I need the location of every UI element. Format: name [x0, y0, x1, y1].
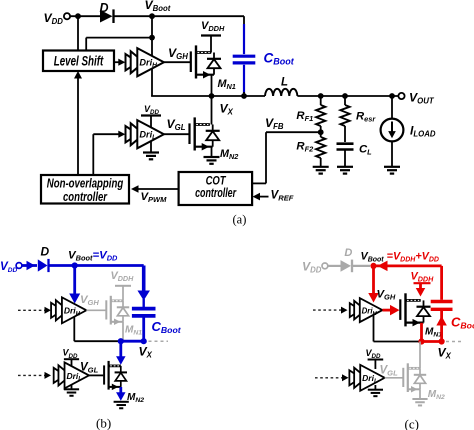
- b label CBoot: [152, 319, 182, 335]
- transistor MN2: [190, 117, 220, 150]
- c dashes VX right: [446, 341, 464, 343]
- c wire VDDH to MN1 drain red: [416, 283, 426, 296]
- svg-text:VBoot: VBoot: [145, 0, 171, 13]
- svg-text:MN2: MN2: [428, 389, 445, 401]
- terminal VOUT: [398, 93, 404, 99]
- c ground DriL: [368, 390, 383, 396]
- c label D gray: [344, 247, 352, 259]
- wire VDD down to Level Shift: [77, 16, 79, 50]
- svg-text:VGL: VGL: [380, 365, 399, 378]
- svg-text:(b): (b): [96, 416, 111, 430]
- label MN2: [220, 148, 238, 161]
- svg-text:L: L: [281, 77, 288, 89]
- junction VBoot: [149, 13, 155, 19]
- svg-text:VGH: VGH: [377, 288, 396, 301]
- junction VBoot supply tap: [149, 35, 155, 41]
- capacitor CL: [337, 144, 354, 150]
- resistor RF2: [316, 132, 325, 167]
- junction MN1 VX: [209, 93, 215, 99]
- svg-text:VFB: VFB: [265, 116, 284, 131]
- svg-text:VX: VX: [438, 346, 452, 361]
- wire nonoverlap to DriL input: [93, 131, 125, 175]
- svg-text:Level Shift: Level Shift: [54, 53, 104, 68]
- b junction VX right: [141, 338, 147, 344]
- c label VX: [438, 346, 452, 361]
- svg-text:VGL: VGL: [80, 362, 99, 375]
- svg-text:VDD: VDD: [366, 348, 381, 360]
- svg-text:MN2: MN2: [220, 148, 238, 161]
- b arrow on VDD wire: [27, 261, 36, 271]
- svg-text:VDD: VDD: [0, 260, 17, 274]
- b label VDD: [0, 260, 17, 274]
- ground ILOAD: [384, 167, 400, 174]
- b wire MN1 source down gray: [122, 322, 124, 341]
- b diode D: [38, 259, 49, 272]
- label RF2: [296, 141, 314, 154]
- buffer DriL: [126, 120, 164, 148]
- svg-text:VREF: VREF: [271, 189, 294, 203]
- b arrow into CBoot: [137, 291, 150, 301]
- svg-text:VPWM: VPWM: [141, 191, 168, 204]
- label CBoot: [264, 51, 295, 67]
- wire DriL to ground: [150, 140, 152, 153]
- wire CBoot to VX: [243, 92, 245, 96]
- c label (c): [405, 417, 419, 430]
- b label MN1 gray: [125, 325, 142, 337]
- svg-text:VDDH: VDDH: [411, 271, 435, 284]
- c wire VX to MN2 drain gray: [419, 342, 421, 369]
- b wire CBoot to VX: [142, 318, 145, 342]
- c ground MN2 gray: [412, 399, 427, 405]
- b label MN2: [127, 392, 144, 404]
- wire CBoot top blue: [243, 24, 245, 54]
- c diode D gray: [341, 260, 353, 273]
- c transistor MN1: [400, 293, 430, 326]
- svg-text:VDD: VDD: [302, 260, 322, 275]
- c label MN2 gray: [428, 389, 445, 401]
- wire CL to ground: [344, 151, 346, 167]
- c wire DriH out to MN1 red: [382, 305, 399, 316]
- svg-text:controller: controller: [195, 185, 237, 200]
- svg-text:MN1: MN1: [125, 325, 142, 337]
- wire VGH DriH to MN1 gate: [164, 61, 190, 63]
- b input dashes DriL: [18, 372, 51, 379]
- b supply VDDH gray bar: [115, 285, 131, 287]
- c label MN1: [425, 327, 442, 339]
- b buffer DriL: [54, 362, 89, 388]
- b dashes VX right: [149, 340, 169, 342]
- b supply VDD DriL label: [63, 348, 78, 360]
- b junction VBoot: [72, 262, 78, 268]
- wire MN2 source to ground: [211, 147, 213, 157]
- svg-text:VGL: VGL: [167, 117, 186, 132]
- c supply VDDH red bar: [414, 282, 431, 284]
- c wire CBoot branch red: [440, 266, 443, 300]
- b wire VX segment blue: [121, 340, 144, 343]
- supply VDDH bar: [201, 34, 221, 36]
- c arrow into VBoot: [378, 261, 388, 272]
- svg-text:controller: controller: [63, 189, 108, 204]
- b wire VGL to MN2: [89, 374, 103, 376]
- b wire MN2 source to gnd blue: [116, 387, 126, 401]
- c supply VDD DriL bar: [368, 359, 384, 361]
- supply VDD DriL label: [144, 104, 159, 116]
- source ILOAD: [381, 119, 404, 142]
- buffer DriH: [126, 48, 164, 76]
- label RF1: [296, 110, 313, 123]
- box Level Shift: [43, 51, 114, 72]
- svg-text:ILOAD: ILOAD: [410, 124, 436, 139]
- b ground MN2: [114, 402, 129, 408]
- b label VGH gray: [80, 294, 99, 307]
- b wire VDDH to MN1 drain gray: [122, 286, 124, 301]
- svg-text:CBoot: CBoot: [264, 51, 295, 67]
- label CL: [359, 144, 372, 157]
- box non-overlapping controller: [41, 175, 129, 204]
- b supply VDD DriL bar: [64, 358, 79, 360]
- c wire DriH return to VX: [374, 314, 422, 342]
- junction ILOAD top: [389, 93, 395, 99]
- b input dashes DriH: [18, 307, 51, 314]
- wire diode to VBoot rail: [115, 15, 245, 17]
- svg-text:CBoot: CBoot: [152, 319, 182, 335]
- resistor RF1: [316, 96, 325, 132]
- wire ILOAD bottom: [391, 141, 393, 166]
- label VREF: [271, 189, 294, 203]
- wire VX rail: [151, 95, 265, 97]
- svg-text:(a): (a): [233, 213, 247, 227]
- wire Level Shift to DriH input: [114, 59, 125, 66]
- c terminal VDD gray: [322, 263, 328, 269]
- wire VFB: [251, 132, 320, 183]
- svg-text:MN2: MN2: [127, 392, 144, 404]
- c wire diode to VBoot gray: [353, 265, 370, 267]
- c wire VDD to diode gray: [328, 265, 341, 267]
- junction CBoot VX: [241, 93, 247, 99]
- capacitor CBoot: [233, 56, 256, 63]
- junction VDD branch: [75, 13, 81, 19]
- svg-text:(c): (c): [405, 417, 419, 430]
- c wire VBoot down to DriH red: [368, 266, 379, 303]
- junction Resr top: [342, 93, 348, 99]
- label VFB: [265, 116, 284, 131]
- svg-text:MN1: MN1: [218, 78, 236, 91]
- c label VBoot eq: [361, 251, 439, 264]
- svg-text:VBoot=VDD: VBoot=VDD: [68, 249, 118, 262]
- junction RF1 top: [318, 93, 324, 99]
- b buffer DriH: [51, 297, 86, 323]
- svg-text:D: D: [41, 244, 50, 258]
- wire ILOAD top: [391, 96, 393, 119]
- wire VDDH to MN1 drain: [210, 36, 212, 53]
- wire VBoot to level-shift supply: [86, 16, 152, 50]
- b junction VX left: [118, 338, 124, 344]
- supply VDD DriL bar: [141, 114, 161, 116]
- c arrow up into CBoot: [436, 316, 447, 326]
- wire VGL DriL to MN2 gate: [164, 133, 189, 135]
- wire DriH supply VBoot to VX: [151, 38, 153, 96]
- b arrow into DriH: [69, 294, 80, 304]
- svg-text:VDD: VDD: [44, 11, 64, 26]
- svg-text:Resr: Resr: [356, 111, 376, 124]
- b supply VDDH gray label: [111, 270, 135, 283]
- svg-text:VDD: VDD: [144, 104, 159, 116]
- label D: [100, 1, 109, 15]
- svg-text:VGH: VGH: [80, 294, 99, 307]
- label VOUT: [409, 91, 435, 106]
- b transistor MN1 gray: [106, 296, 129, 325]
- svg-text:D: D: [100, 1, 109, 15]
- c wire MN2 source gnd gray: [419, 389, 421, 398]
- svg-text:VDDH: VDDH: [201, 20, 225, 33]
- c junction VBoot red: [370, 263, 376, 269]
- b wire VDD to DriL: [71, 359, 73, 368]
- b wire DriL ground: [71, 383, 73, 389]
- label VX: [220, 102, 234, 117]
- svg-text:VBoot =VDDH+VDD: VBoot =VDDH+VDD: [361, 251, 439, 264]
- svg-text:VX: VX: [220, 102, 234, 117]
- svg-text:VDD: VDD: [63, 348, 78, 360]
- c junction VX left red: [418, 338, 424, 344]
- b wire VDD to diode: [22, 264, 37, 267]
- b wire CBoot branch blue: [142, 266, 146, 293]
- svg-text:VDDH: VDDH: [111, 270, 135, 283]
- c input dashes DriL: [315, 374, 349, 381]
- inductor L: [265, 89, 297, 96]
- b wire VBoot down to DriH: [73, 266, 76, 296]
- c supply VDDH red label: [411, 271, 435, 284]
- svg-text:D: D: [344, 247, 352, 259]
- supply VDDH label: [201, 20, 225, 33]
- diode D: [100, 9, 114, 23]
- c wire DriL ground: [374, 385, 376, 390]
- wire VDD bar to DriL: [150, 116, 152, 129]
- b wire DriH return to VX: [74, 315, 121, 341]
- c wire VX segment red: [422, 340, 442, 343]
- b label VGL: [80, 362, 99, 375]
- label L: [281, 77, 288, 89]
- b wire VGH gray: [86, 309, 105, 311]
- wire VPWM COT to nonoverlap: [131, 185, 179, 193]
- c label VDD gray: [302, 260, 322, 275]
- c input dashes DriH: [313, 307, 348, 314]
- label VPWM: [141, 191, 168, 204]
- ground DriL: [143, 153, 159, 160]
- b label D: [41, 244, 50, 258]
- wire VX to MN2 drain: [211, 96, 213, 125]
- node VBoot label: [145, 0, 171, 13]
- label (a): [233, 213, 247, 227]
- c transistor MN2 gray: [403, 363, 426, 392]
- c wire MN1 source down red: [420, 323, 423, 342]
- junction VFB tap: [318, 129, 324, 135]
- c capacitor CBoot: [431, 302, 453, 310]
- svg-text:RF2: RF2: [296, 141, 314, 154]
- b wire VX to MN2 drain blue: [116, 341, 126, 365]
- label VGH: [168, 46, 188, 61]
- resistor Resr: [340, 96, 349, 142]
- svg-text:VGH: VGH: [168, 46, 188, 61]
- svg-text:RF1: RF1: [296, 110, 313, 123]
- ground CL: [337, 167, 353, 174]
- node VDD input label: [44, 11, 64, 26]
- b transistor MN2: [104, 361, 127, 390]
- ground RF2: [313, 167, 329, 174]
- wire L to VOUT: [297, 95, 398, 97]
- b terminal VDD: [16, 263, 22, 269]
- wire CBoot branch top: [243, 16, 245, 26]
- c wire VBoot top red: [374, 264, 442, 267]
- c buffer DriL: [349, 365, 384, 391]
- label MN1: [218, 78, 236, 91]
- c supply VDD DriL label: [366, 348, 381, 360]
- wire CBoot bottom blue: [243, 65, 245, 93]
- b label VX: [139, 345, 153, 360]
- box COT controller: [179, 172, 253, 205]
- ground MN2: [204, 157, 220, 164]
- b wire diode to VBoot: [49, 264, 144, 267]
- c label VGH: [377, 288, 396, 301]
- b label (b): [96, 416, 111, 430]
- c label VGL gray: [380, 365, 399, 378]
- b ground DriL: [64, 389, 79, 395]
- b wire arrow to plate: [142, 299, 144, 307]
- svg-text:MN1: MN1: [425, 327, 442, 339]
- svg-text:VX: VX: [139, 345, 153, 360]
- wire VREF arrow: [253, 193, 269, 201]
- arrow from non-overlap into Level Shift: [74, 71, 82, 175]
- label Resr: [356, 111, 376, 124]
- svg-text:CBoot: CBoot: [451, 315, 474, 331]
- wire MN1 source to VX: [211, 75, 213, 96]
- b label VBoot eq: [68, 249, 118, 262]
- c wire VDD to DriL: [374, 360, 376, 370]
- label VGL: [167, 117, 186, 132]
- b capacitor CBoot: [132, 309, 156, 316]
- c junction VX right red: [439, 338, 445, 344]
- c wire CBoot to VX red: [440, 311, 443, 342]
- c wire VGL gray: [385, 377, 403, 379]
- transistor MN1: [191, 45, 221, 78]
- svg-text:CL: CL: [359, 144, 372, 157]
- svg-text:VOUT: VOUT: [409, 91, 435, 106]
- c label CBoot: [451, 315, 474, 331]
- terminal VDD: [64, 13, 70, 19]
- c buffer DriH: [350, 298, 383, 322]
- wire VDD to diode: [70, 15, 100, 17]
- label ILOAD: [410, 124, 436, 139]
